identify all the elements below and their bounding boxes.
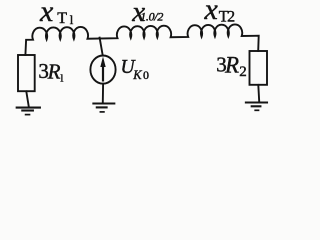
- svg-text:0: 0: [143, 68, 149, 82]
- svg-text:K: K: [132, 68, 142, 82]
- svg-text:l: l: [70, 13, 74, 27]
- svg-text:x: x: [39, 0, 54, 28]
- svg-text:T2: T2: [219, 9, 235, 26]
- svg-text:2: 2: [239, 64, 247, 80]
- svg-text:R: R: [47, 60, 61, 84]
- svg-text:T: T: [57, 10, 67, 27]
- svg-text:l: l: [60, 72, 63, 84]
- svg-text:x: x: [204, 0, 219, 26]
- svg-text:1.0/2: 1.0/2: [140, 9, 163, 23]
- svg-text:R: R: [224, 53, 239, 78]
